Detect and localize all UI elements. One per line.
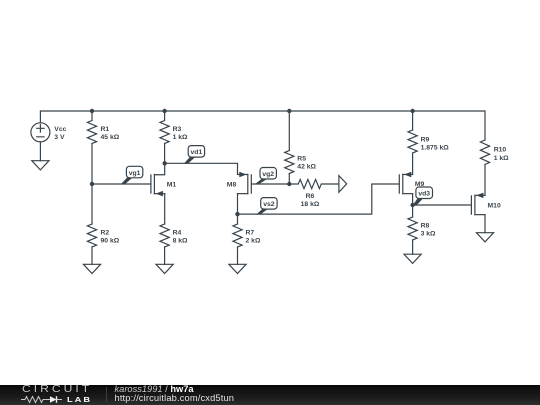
svg-text:R1: R1 — [101, 126, 110, 133]
svg-text:3 V: 3 V — [54, 134, 65, 141]
svg-text:45 kΩ: 45 kΩ — [101, 134, 120, 141]
svg-text:1.875 kΩ: 1.875 kΩ — [421, 145, 450, 152]
svg-text:90 kΩ: 90 kΩ — [101, 238, 120, 245]
wire vd3 net (M9 drain / R8 to M10 gate) — [413, 194, 471, 217]
svg-text:R5: R5 — [297, 156, 306, 163]
svg-text:vg2: vg2 — [262, 171, 274, 178]
CircuitLab logo text CIRCUIT — [22, 385, 92, 394]
svg-text:M8: M8 — [227, 182, 237, 189]
svg-text:M10: M10 — [488, 203, 501, 210]
node flag vd3 — [413, 187, 433, 206]
transistor M8 (NMOS, rotated 180) — [238, 172, 252, 194]
resistor R3 — [160, 111, 169, 144]
node flag vg2 — [255, 168, 277, 185]
svg-text:R3: R3 — [173, 126, 182, 133]
node junction dot vs2 — [235, 212, 239, 216]
svg-text:vs2: vs2 — [263, 201, 275, 208]
resistor R4 — [160, 224, 169, 247]
output port triangle after R6 — [339, 176, 347, 193]
wire R5 leads — [288, 111, 290, 184]
voltage source Vcc 3V — [31, 123, 50, 161]
node junction dot R3 top — [162, 109, 166, 113]
wire vd1 net (M1 drain to M8 source) — [165, 163, 238, 174]
svg-text:R2: R2 — [101, 230, 110, 237]
resistor R5 — [285, 151, 294, 174]
resistor R7 — [233, 224, 242, 247]
svg-text:vd3: vd3 — [418, 191, 430, 198]
ground below R7 — [229, 264, 246, 273]
node junction dot R5 top — [287, 109, 291, 113]
wire R7 bottom lead — [237, 247, 239, 264]
node flag vd1 — [184, 146, 205, 164]
node junction dot R5/R6/M8 gate — [287, 182, 291, 186]
wire R8 bottom lead — [412, 240, 414, 254]
wire R9 top lead — [412, 111, 414, 130]
svg-text:R9: R9 — [421, 137, 430, 144]
svg-text:R7: R7 — [246, 230, 255, 237]
wire vg1 net (R1/R2 to M1 gate) — [92, 144, 150, 225]
wire R2 bottom lead — [91, 247, 93, 264]
resistor R6 (horizontal) — [289, 179, 339, 188]
node junction dot vd1 — [163, 161, 167, 165]
resistor R9 — [408, 130, 417, 153]
wire vs2 net (M8 drain / R7 to M9 gate) — [238, 184, 399, 224]
svg-text:vd1: vd1 — [191, 149, 203, 156]
ground below R4 — [156, 264, 173, 273]
svg-text:R8: R8 — [421, 223, 430, 230]
transistor M9 (NMOS, flipped) — [399, 172, 412, 194]
svg-text:2 kΩ: 2 kΩ — [246, 238, 261, 245]
wire R10 bottom to M10 source — [484, 165, 486, 196]
node flag vs2 — [256, 198, 277, 215]
node junction dot R1 top — [90, 109, 94, 113]
logo resistor zigzag — [21, 397, 50, 403]
resistor R8 — [408, 217, 417, 240]
node flag vg1 — [121, 166, 143, 184]
logo diode — [50, 396, 57, 403]
resistor R10 — [480, 140, 489, 165]
ground below R8 — [404, 254, 421, 263]
footer title text — [115, 385, 194, 395]
wire top supply rail — [40, 111, 485, 140]
wire R9 bottom to M9 source — [412, 153, 414, 174]
svg-text:3 kΩ: 3 kΩ — [421, 231, 436, 238]
svg-text:18 kΩ: 18 kΩ — [301, 201, 320, 208]
node junction dot R9 top — [410, 109, 414, 113]
wire M8 gate to R5/R6 node — [252, 183, 289, 185]
svg-text:1 kΩ: 1 kΩ — [494, 155, 509, 162]
wire R3 bottom to vd1 node — [164, 144, 166, 164]
resistor R1 — [87, 111, 96, 144]
svg-text:R6: R6 — [306, 193, 315, 200]
transistor M1 (NMOS) — [151, 163, 165, 196]
footer bar — [0, 385, 540, 405]
CircuitLab logo resistor+diode+LAB — [0, 385, 110, 405]
footer url text — [115, 394, 235, 404]
svg-text:42 kΩ: 42 kΩ — [297, 164, 316, 171]
resistor R2 — [87, 224, 96, 247]
transistor M10 (NMOS, flipped) — [471, 193, 485, 215]
svg-text:Vcc: Vcc — [54, 126, 66, 133]
svg-text:vg1: vg1 — [129, 170, 141, 177]
svg-text:M1: M1 — [167, 182, 177, 189]
footer separator — [106, 387, 107, 402]
ground below Vcc — [32, 161, 49, 170]
node junction dot vd3 — [410, 203, 414, 207]
ground below R2 — [83, 264, 100, 273]
svg-text:R10: R10 — [494, 147, 507, 154]
svg-text:8 kΩ: 8 kΩ — [173, 238, 188, 245]
ground below M10 — [476, 233, 493, 242]
node junction dot vg1 — [90, 182, 94, 186]
wire R4 leads — [164, 194, 166, 265]
svg-text:R4: R4 — [173, 230, 182, 237]
wire M10 drain to ground — [484, 215, 486, 233]
svg-text:1 kΩ: 1 kΩ — [173, 134, 188, 141]
